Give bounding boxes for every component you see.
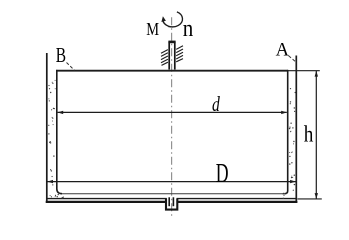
gland hatching left	[161, 50, 168, 66]
rotation arrow arc	[163, 12, 183, 27]
centerline (vertical axis of shaft/vessel)	[171, 17, 173, 218]
left inner wall line	[57, 70, 62, 194]
svg-text:d: d	[212, 92, 220, 116]
inner bottom surface line	[62, 193, 285, 195]
dimension line d (inner diameter)	[58, 111, 287, 113]
wall stipple dots	[48, 80, 296, 199]
rotation arrowhead	[161, 16, 166, 22]
gland hatching right	[176, 46, 183, 62]
left wall outer line	[46, 53, 48, 203]
right wall outer line	[295, 56, 297, 203]
centerline tick below arc	[168, 26, 175, 28]
bottom plate upper line	[47, 198, 297, 200]
svg-text:A: A	[276, 39, 290, 60]
svg-text:D: D	[216, 158, 229, 188]
stuffing-box sleeve on lid	[168, 42, 170, 70]
svg-text:n: n	[183, 16, 194, 42]
svg-text:B: B	[56, 43, 66, 67]
svg-text:M: M	[146, 19, 159, 39]
top extension line for h	[288, 70, 320, 72]
dimension line h (height)	[315, 71, 317, 199]
right inner wall line	[285, 70, 288, 194]
drain boss at bottom center	[166, 199, 177, 210]
drain hole walls	[168, 197, 170, 206]
bottom extension line for h	[297, 198, 321, 200]
vessel lid / cover line	[56, 70, 288, 72]
svg-text:h: h	[304, 122, 314, 147]
dimension line D (outer diameter)	[47, 181, 295, 183]
bottom plate lower line	[46, 201, 298, 203]
